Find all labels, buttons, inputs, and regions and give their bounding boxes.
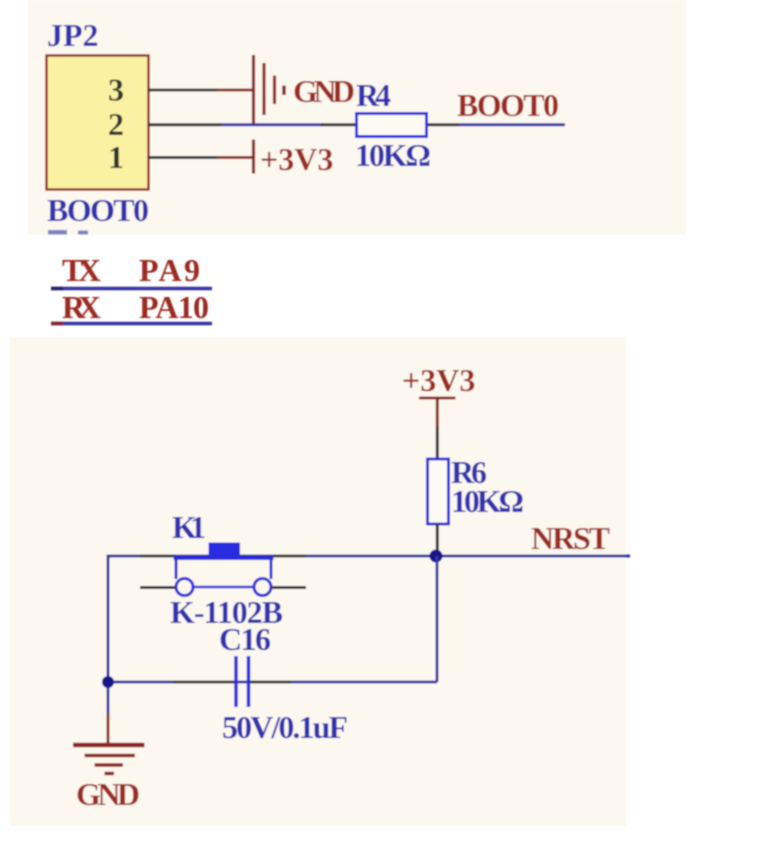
wire R6 top lead (black) — [436, 427, 439, 460]
wire R6 bottom lead (black) — [436, 524, 439, 553]
svg-text:C16: C16 — [219, 621, 271, 657]
svg-text:50V/0.1uF: 50V/0.1uF — [222, 709, 348, 745]
switch K1 bottom-left pin stub (black) — [140, 586, 176, 589]
wire TX/PA9 — [51, 287, 212, 291]
svg-text:TX: TX — [62, 252, 101, 288]
wire resistor R4 left lead (black) — [321, 123, 357, 126]
wire TX/PA9 left stub — [51, 287, 63, 291]
svg-text:BOOT0: BOOT0 — [47, 192, 149, 228]
junction node capacitor left — [102, 676, 114, 688]
capacitor C16 right lead (black) — [251, 681, 292, 684]
svg-text:3: 3 — [108, 72, 124, 108]
wire left branch (blue vertical) — [107, 555, 110, 714]
svg-text:GND: GND — [76, 776, 140, 812]
svg-text:2: 2 — [108, 106, 124, 142]
sheet background bottom panel — [10, 337, 626, 826]
sheet background top panel — [28, 0, 686, 235]
svg-text:+3V3: +3V3 — [260, 141, 333, 177]
svg-text:GND: GND — [293, 73, 355, 109]
power +3V3 bar (reset circuit) — [419, 397, 456, 400]
switch K1 top-right pin stub (black) — [274, 555, 306, 558]
svg-text:1: 1 — [108, 139, 124, 175]
svg-text:R4: R4 — [356, 77, 391, 113]
resistor R4 — [357, 114, 427, 137]
power +3V3 bar (top section) — [252, 140, 255, 174]
svg-text:JP2: JP2 — [47, 17, 99, 53]
wire resistor R4 right lead (black) — [426, 123, 459, 126]
wire to ground (dark red vertical) — [107, 713, 110, 744]
svg-text:PA9: PA9 — [139, 252, 200, 288]
svg-text:BOOT0: BOOT0 — [457, 87, 559, 123]
svg-text:RX: RX — [62, 289, 101, 325]
svg-text:K1: K1 — [172, 509, 206, 545]
svg-text:10KΩ: 10KΩ — [451, 483, 524, 519]
wire pin 2 (black) — [148, 123, 222, 126]
switch K1 top-left pin stub (black) — [140, 555, 174, 558]
wire RX/PA10 — [51, 322, 212, 326]
capacitor C16 left lead (black) — [173, 681, 234, 684]
svg-text:NRST: NRST — [531, 520, 610, 556]
pushbutton K1 body — [174, 543, 274, 596]
clipped text fragment (next sheet label) — [48, 230, 67, 235]
wire BOOT0 net left segment (blue) — [222, 123, 323, 126]
wire capacitor net (blue horizontal) — [108, 681, 437, 684]
junction node NRST — [430, 550, 443, 563]
wire BOOT0 net right segment (blue) — [459, 123, 565, 126]
ground GND sideways power port — [254, 55, 285, 126]
capacitor C16 plates — [236, 656, 249, 707]
wire pin 3 (black) — [148, 89, 217, 92]
svg-text:+3V3: +3V3 — [402, 362, 475, 398]
connector JP2 body — [47, 56, 149, 190]
switch K1 bottom-right pin stub (black) — [272, 586, 307, 589]
wire pin 1 to +3V3 power port (dark red) — [217, 156, 253, 159]
resistor R6 — [428, 459, 449, 524]
svg-text:PA10: PA10 — [139, 289, 209, 325]
wire pin 3 to GND power port (dark red) — [217, 89, 253, 92]
wire NRST net — [108, 555, 631, 558]
svg-text:10KΩ: 10KΩ — [355, 137, 431, 173]
ground GND symbol (reset circuit) — [73, 745, 145, 774]
wire +3V3 to R6 (dark red) — [436, 399, 439, 427]
wire RX/PA10 left stub (dark red) — [51, 322, 63, 326]
wire right branch to capacitor (blue vertical) — [436, 556, 439, 682]
wire pin 1 (black) — [148, 156, 217, 159]
